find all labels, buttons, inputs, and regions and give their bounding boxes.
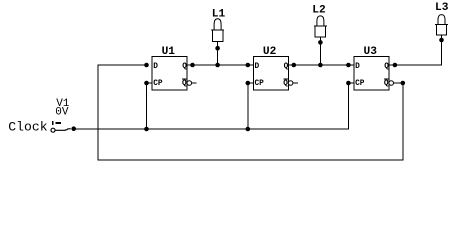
svg-text:Q: Q	[182, 63, 187, 71]
svg-text:CP: CP	[255, 80, 265, 88]
wire: Q1 to D2 (net at y=65 between U1 and U2)	[187, 64, 253, 66]
junction dots on Q3 net	[346, 63, 397, 68]
wire: U3 Qbar stub to feedback	[394, 82, 404, 84]
svg-text:Q: Q	[283, 80, 288, 88]
svg-text:Q: Q	[384, 80, 389, 88]
wire: Q2 to D3 (net at y=65 between U2 and U3)	[288, 64, 354, 66]
flip-flop U1	[152, 46, 197, 90]
svg-text:CP: CP	[355, 80, 365, 88]
svg-text:D: D	[255, 63, 260, 71]
switch V1 (clock source)	[51, 98, 71, 132]
svg-text:D: D	[355, 63, 360, 71]
wire: CP1 branch from clock bus	[147, 83, 153, 129]
junction dots on Q2 net	[246, 63, 323, 68]
svg-text:U3: U3	[364, 46, 378, 58]
wire: clock bus from switch to CP3	[73, 83, 354, 129]
svg-text:0V: 0V	[55, 107, 69, 119]
svg-text:L1: L1	[212, 9, 226, 21]
wire: feedback from U3 Qbar down, along bottom, up to D of U1	[98, 65, 403, 160]
wire: CP2 branch from clock bus	[248, 83, 254, 129]
svg-text:U1: U1	[162, 46, 176, 58]
lamp L2	[312, 5, 327, 37]
label Clock	[8, 120, 47, 135]
junction dots on CP pins	[144, 81, 351, 86]
lamp L3	[435, 2, 449, 35]
svg-text:Clock: Clock	[8, 120, 47, 135]
wire: lamp L2 lead down to Q2 net	[319, 37, 321, 65]
wire: lamp L1 lead down to Q1 net	[217, 42, 219, 66]
svg-text:Q: Q	[182, 80, 187, 88]
junction dot at switch output	[71, 126, 76, 131]
wire: Q3 right and up to lamp L3	[389, 35, 442, 65]
svg-text:L2: L2	[312, 5, 326, 17]
svg-text:L3: L3	[435, 2, 449, 14]
flip-flop U3	[354, 46, 395, 90]
svg-text:CP: CP	[153, 80, 163, 88]
svg-text:Q: Q	[284, 63, 289, 71]
svg-text:Q: Q	[384, 63, 389, 71]
svg-text:D: D	[153, 63, 158, 71]
junction dot on U3 Qbar	[401, 81, 406, 86]
svg-text:U2: U2	[263, 46, 277, 58]
flip-flop U2	[253, 46, 297, 90]
junction dots on clock bus	[144, 127, 250, 132]
junction dots on lamp pins	[215, 38, 444, 51]
junction dots on Q1 net	[144, 63, 220, 68]
lamp L1	[211, 9, 225, 42]
